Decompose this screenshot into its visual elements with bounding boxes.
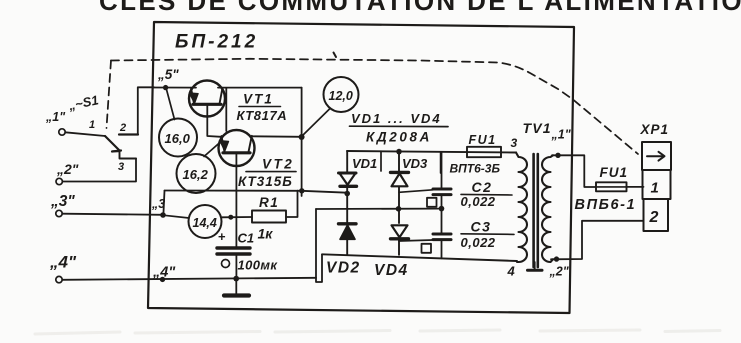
stray mark bbox=[334, 53, 337, 58]
node dot W caps column bbox=[439, 206, 445, 212]
terminal „4" circle bbox=[56, 276, 62, 282]
svg-text:КТ817А: КТ817А bbox=[237, 108, 288, 123]
transformer TV1 bbox=[523, 120, 552, 136]
transistor VT1 bbox=[189, 81, 225, 117]
label C3 bbox=[471, 219, 492, 235]
svg-text:100мк: 100мк bbox=[238, 258, 279, 273]
TV1 core bbox=[534, 154, 538, 267]
pointer 16,0 bbox=[167, 90, 175, 120]
terminal label „1" bbox=[45, 110, 66, 124]
resistor R1 bbox=[252, 211, 286, 223]
svg-text:„4": „4" bbox=[152, 265, 176, 281]
wire R1 right riser bbox=[286, 191, 298, 217]
switch throw contact 3 step bbox=[113, 151, 137, 158]
diode VD2 bbox=[339, 224, 357, 255]
wire C2 left lead bbox=[399, 190, 433, 193]
voltage circle 14,4 bbox=[189, 205, 222, 238]
pointer 14,4 bbox=[163, 215, 189, 218]
capacitor C3 bbox=[433, 234, 451, 240]
node dot collector bbox=[299, 134, 305, 140]
svg-text:CLES DE COMMUTATION DE L'ALIME: CLES DE COMMUTATION DE L'ALIMENTATIO bbox=[99, 0, 741, 16]
XP1 pin 2 bbox=[649, 209, 659, 226]
svg-text:4: 4 bbox=[507, 264, 516, 279]
caps column bottom bbox=[441, 241, 443, 258]
fraction line C3 bbox=[461, 233, 514, 236]
svg-text:ВПТ6-3Б: ВПТ6-3Б bbox=[450, 162, 501, 176]
wire „4" row bbox=[62, 278, 316, 280]
fraction line C2 bbox=[461, 193, 512, 196]
svg-text:14,4: 14,4 bbox=[193, 216, 217, 230]
svg-text:16,0: 16,0 bbox=[165, 131, 191, 146]
voltage circle 12,0 bbox=[324, 77, 359, 112]
svg-text:VD3: VD3 bbox=[402, 156, 428, 171]
svg-text:0,022: 0,022 bbox=[461, 194, 496, 209]
TV1 secondary winding bbox=[542, 155, 553, 262]
svg-text:XP1: XP1 bbox=[640, 122, 670, 137]
inner label „3" bbox=[151, 197, 165, 211]
svg-text:„2": „2" bbox=[56, 161, 79, 177]
terminal label „4" bbox=[49, 253, 77, 272]
wire fuse to XP1 pin1 bbox=[627, 186, 644, 188]
label FU1 bbox=[469, 133, 497, 147]
svg-text:FU1: FU1 bbox=[469, 133, 497, 147]
svg-text:„5": „5" bbox=[157, 67, 179, 82]
svg-text:„2": „2" bbox=[549, 265, 570, 279]
svg-text:0,022: 0,022 bbox=[461, 235, 496, 250]
fuse FU1 (ВПТ6-3Б) bbox=[467, 147, 501, 157]
terminal label „2" bbox=[56, 161, 79, 177]
XP1 pin 1 bbox=[651, 180, 659, 197]
bridge bottom rail bbox=[322, 254, 517, 261]
svg-text:„3": „3" bbox=[50, 193, 75, 210]
svg-text:FU1: FU1 bbox=[600, 165, 629, 180]
svg-text:12,0: 12,0 bbox=[329, 89, 353, 103]
svg-text:R1: R1 bbox=[259, 195, 279, 210]
inner label „5" bbox=[157, 67, 179, 82]
wire riser „4" to W row bbox=[315, 209, 317, 278]
wire C1 bottom bbox=[235, 256, 237, 279]
VD3 label frame right bbox=[440, 152, 442, 173]
label ВПТ6-3Б bbox=[450, 162, 501, 176]
XP1 arrow bbox=[647, 152, 665, 161]
diode VD3 bbox=[391, 152, 409, 223]
wire secondary top to fuse bbox=[552, 155, 596, 187]
fraction line VT1 bbox=[239, 106, 281, 108]
svg-text:С1: С1 bbox=[238, 231, 255, 246]
node dot secondary bottom bbox=[554, 256, 559, 261]
svg-text:VD1: VD1 bbox=[352, 156, 377, 171]
inner label „4" bbox=[152, 265, 176, 281]
C3 value bbox=[461, 235, 496, 250]
diode VD1 bbox=[339, 151, 357, 223]
pin label 3 bbox=[511, 136, 518, 150]
svg-text:КТ315Б: КТ315Б bbox=[238, 174, 293, 189]
svg-text:VD4: VD4 bbox=[374, 262, 409, 279]
label C1 bbox=[238, 231, 255, 246]
connector XP1 bbox=[642, 142, 671, 231]
svg-text:1к: 1к bbox=[258, 226, 274, 242]
C1 case circle bbox=[222, 260, 230, 268]
terminal label „3" bbox=[50, 193, 75, 210]
fraction line VT2 bbox=[246, 171, 296, 173]
C3 case square bbox=[422, 244, 432, 253]
arm tip tick bbox=[112, 151, 121, 152]
label C2 bbox=[472, 179, 493, 195]
node dot secondary top bbox=[555, 153, 560, 158]
wire C1 top bbox=[235, 217, 237, 246]
svg-text:VD1 ... VD4: VD1 ... VD4 bbox=[351, 111, 442, 126]
node dot „3" row riser bbox=[299, 188, 304, 193]
switch arm bbox=[105, 136, 119, 150]
БП-212 enclosure box bbox=[148, 22, 574, 313]
label VD1...VD4 bbox=[351, 111, 442, 126]
label VD1 bbox=[352, 156, 377, 171]
node dot „4"-ground bbox=[233, 276, 239, 282]
wire C3 left lead bbox=[399, 240, 433, 241]
pole label 1 bbox=[89, 119, 95, 131]
pin label 4 bbox=[507, 264, 516, 279]
C2 case square bbox=[427, 198, 437, 207]
contact 3 label bbox=[118, 161, 124, 173]
fraction line VD1..VD4 bbox=[350, 125, 449, 127]
svg-text:VT1: VT1 bbox=[243, 92, 274, 107]
label XP1 bbox=[640, 122, 670, 137]
voltage circle 16,2 bbox=[177, 154, 216, 193]
TV1 primary winding bbox=[516, 153, 527, 263]
svg-text:ВПБ6-1: ВПБ6-1 bbox=[575, 197, 637, 213]
node dot „5" bbox=[163, 85, 168, 90]
svg-text:„4": „4" bbox=[49, 253, 77, 272]
label VD2 bbox=[326, 260, 361, 277]
svg-text:VT2: VT2 bbox=[262, 157, 294, 172]
label VT2 bbox=[262, 157, 294, 172]
label VD3 bbox=[402, 156, 428, 171]
C1 value 100мк bbox=[238, 258, 279, 273]
VT2 collector wire / label frame bottom bbox=[252, 135, 302, 138]
wire R1 left bbox=[222, 216, 252, 218]
diode VD4 bbox=[391, 225, 409, 255]
ground bbox=[224, 279, 249, 296]
label КТ315Б bbox=[238, 174, 293, 189]
label КТ817А bbox=[237, 108, 288, 123]
bridge top rail bbox=[347, 151, 516, 153]
pin label „1" bbox=[551, 128, 572, 142]
node dot R1 left bbox=[228, 215, 233, 220]
svg-text:3: 3 bbox=[511, 136, 518, 150]
capacitor C2 bbox=[433, 189, 451, 195]
terminal „3" circle bbox=[56, 210, 62, 216]
wire „5" node row bbox=[154, 87, 196, 89]
svg-text:VD2: VD2 bbox=[326, 260, 361, 277]
switch S1 label bbox=[66, 92, 99, 113]
node dot „4"-a bbox=[160, 277, 165, 282]
svg-text:2: 2 bbox=[119, 122, 126, 134]
pin label „2" bbox=[549, 265, 570, 279]
VT2 base lead bbox=[235, 153, 237, 217]
svg-text:„3: „3 bbox=[151, 197, 165, 211]
contact 2 label bbox=[119, 122, 126, 134]
label VD4 bbox=[374, 262, 409, 279]
label БП-212 bbox=[175, 32, 258, 53]
terminal „2" circle bbox=[56, 178, 62, 184]
label FU1 bbox=[600, 165, 629, 180]
node dot bridge left mid bbox=[344, 191, 350, 197]
label frame left bbox=[225, 88, 227, 131]
voltage circle 16,0 bbox=[159, 119, 197, 157]
node dot W right column bbox=[396, 206, 402, 212]
pointer 12,0 bbox=[302, 109, 330, 137]
VT1 collector wire / label frame top bbox=[218, 87, 302, 89]
VD1 label frame right bbox=[380, 152, 382, 172]
wire riser „3" to inner row bbox=[163, 191, 164, 215]
switch throw contact 2 bar bbox=[119, 133, 138, 135]
wire contact1 to arm bbox=[65, 132, 105, 136]
pointer 16,2 bbox=[204, 142, 221, 157]
wire contact3 to terminal „2" bbox=[62, 159, 136, 182]
C2 value bbox=[461, 194, 496, 209]
svg-text:TV1: TV1 bbox=[523, 120, 552, 136]
label VT1 bbox=[243, 92, 274, 107]
svg-text:КД208А: КД208А bbox=[366, 130, 432, 145]
wire contact2 to „5" node bbox=[138, 87, 154, 134]
title text (cut off at top) bbox=[99, 0, 741, 16]
wire „3" row inner bbox=[165, 191, 348, 193]
dashed enclosure border bbox=[107, 59, 639, 154]
svg-text:3: 3 bbox=[118, 161, 124, 173]
node dot „3" bbox=[160, 212, 166, 218]
caps column mid bbox=[441, 196, 443, 233]
fuse FU1 (ВПБ6-1) bbox=[596, 182, 627, 191]
label frame right bbox=[301, 88, 303, 196]
svg-text:1: 1 bbox=[651, 180, 659, 197]
R1 value 1к bbox=[258, 226, 274, 242]
svg-text:„1": „1" bbox=[551, 128, 572, 142]
faint page smudge bottom bbox=[35, 330, 720, 334]
wire W row bbox=[316, 208, 442, 210]
caps column top bbox=[441, 152, 443, 188]
wire „3" row bbox=[62, 214, 163, 215]
svg-text:„1": „1" bbox=[45, 110, 66, 124]
wire corner to bottom rail bbox=[316, 255, 322, 282]
switch S1 contact 1 terminal bbox=[59, 129, 65, 135]
node dot rail VD3 bbox=[396, 149, 402, 155]
capacitor C1 bbox=[217, 248, 250, 254]
svg-text:С2: С2 bbox=[472, 179, 493, 195]
svg-text:„~S1: „~S1 bbox=[66, 92, 99, 113]
svg-text:2: 2 bbox=[649, 209, 659, 226]
svg-text:+: + bbox=[218, 229, 226, 244]
svg-text:С3: С3 bbox=[471, 219, 492, 235]
svg-text:1: 1 bbox=[89, 119, 95, 131]
svg-text:БП-212: БП-212 bbox=[175, 32, 258, 53]
svg-text:16,2: 16,2 bbox=[183, 167, 209, 182]
C1 plus sign bbox=[218, 229, 226, 244]
label ВПБ6-1 bbox=[575, 197, 637, 213]
wire secondary bottom to XP1 pin2 bbox=[551, 221, 644, 259]
VT1 base lead bbox=[207, 105, 221, 141]
label КД208А bbox=[366, 130, 432, 145]
TV1 core ground tick bbox=[528, 262, 543, 270]
transistor VT2 bbox=[219, 130, 255, 166]
